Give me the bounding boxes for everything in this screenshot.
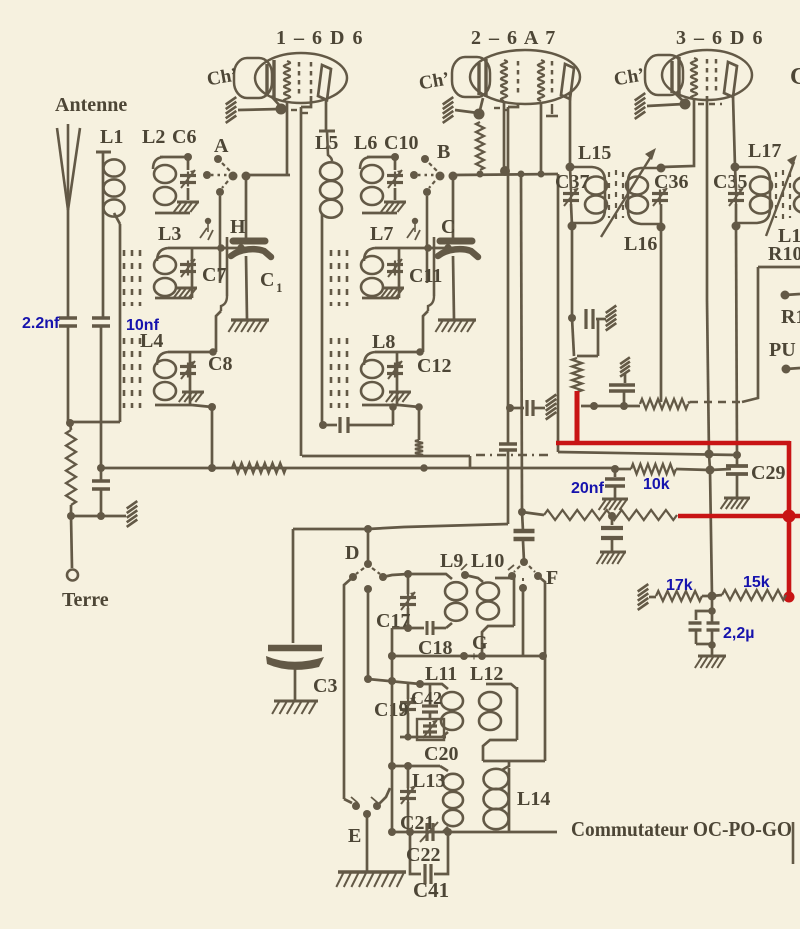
wire x707 long [707, 300, 709, 455]
node 20nf [611, 465, 619, 473]
wire L4 bottom [155, 404, 192, 407]
switch contact left [410, 171, 418, 179]
wire bracket stem [216, 311, 221, 352]
switch stem [207, 224, 209, 232]
chassis hatch V3 [635, 93, 646, 119]
wire below 2.2nf [67, 326, 70, 424]
resistor V2 cathode bias [476, 122, 484, 170]
resistor 15k [722, 590, 786, 600]
ground AVC filter [597, 552, 626, 564]
terminal bar L5 top [319, 130, 335, 133]
svg-text:D: D [345, 542, 359, 564]
switch slash y832 [420, 822, 438, 842]
wire rail y456 [302, 455, 470, 458]
svg-text:1: 1 [276, 280, 283, 295]
wire 2.2u right lower [711, 630, 714, 644]
svg-text:C7: C7 [202, 264, 226, 286]
tube V3 dashes below [698, 103, 722, 105]
node 2.2u bottom [708, 641, 716, 649]
wire 2.2u right [711, 611, 714, 623]
switch F pole [519, 584, 527, 592]
wire L10 right [513, 578, 516, 626]
wire L13 bottom hook [443, 827, 448, 832]
wire D pole down [367, 589, 370, 679]
wire 10k right [676, 469, 710, 470]
wire E right hook [377, 788, 390, 806]
core dashes L3-0 [123, 250, 126, 306]
wire L10 bottom [482, 626, 514, 656]
tube V2 stub bar [546, 115, 558, 118]
svg-text:C35: C35 [713, 171, 747, 193]
node y406 b [590, 402, 598, 410]
node L17 bottom [732, 222, 741, 231]
wire L1 down [102, 152, 105, 317]
svg-text:F: F [546, 567, 558, 589]
node F top [520, 558, 528, 566]
tube V3 6D6 cathode [672, 57, 679, 95]
wire x508 lower [507, 450, 510, 524]
trimmer capacitor C35 [728, 188, 744, 206]
wire L2 top rail [367, 156, 395, 159]
wire L4 top rail [168, 351, 213, 354]
svg-text:C20: C20 [424, 743, 458, 765]
wire rail y468 [100, 467, 615, 470]
resistor B+ feed [640, 399, 688, 409]
wire 2.2u gnd stem [711, 645, 714, 655]
ground L4 [179, 392, 204, 402]
ground L4 [386, 392, 411, 402]
wire V2 plate down [569, 92, 572, 167]
switch contact lower [423, 188, 431, 196]
wire L12 bottom [483, 740, 517, 761]
resistor small x419 [415, 440, 423, 456]
svg-text:L6: L6 [354, 132, 377, 154]
junction V1 cathode [276, 104, 287, 115]
svg-text:C12: C12 [417, 355, 451, 377]
wire G rail [392, 655, 543, 658]
wire L13 hook [440, 766, 448, 771]
switch F contact left [508, 572, 516, 580]
node G rail right [539, 652, 547, 660]
wire 20nf stem2 [614, 486, 617, 498]
wire D right to L9 [383, 574, 408, 577]
svg-text:PU: PU [769, 339, 796, 361]
inductor L17 box [735, 167, 770, 223]
wire 17k to node [702, 595, 712, 598]
svg-text:L13: L13 [412, 770, 445, 792]
core dashes L17 [776, 170, 790, 220]
switch contact top [214, 155, 222, 163]
wire V1 plate down [325, 98, 328, 131]
svg-text:L14: L14 [517, 788, 550, 810]
wire C22 box2 [434, 832, 448, 874]
wire x419 down [418, 407, 421, 440]
wire C22 box [410, 832, 421, 874]
wire C35 chain [735, 167, 736, 190]
switch arrow mark [407, 228, 414, 238]
wire cap stem top [245, 179, 248, 238]
wire L3 bottom [155, 297, 192, 300]
switch dashed arm [222, 163, 230, 171]
wire D stem [367, 529, 370, 563]
ground 20nf [599, 499, 628, 510]
switch F arm [514, 566, 520, 572]
wire L12 top [486, 684, 517, 689]
wire res to x522 [522, 512, 544, 515]
capacitor C22 [425, 864, 431, 884]
capacitor 2.2nf [59, 318, 77, 326]
capacitor C42 [422, 706, 438, 712]
svg-text:Commutateur OC-PO-GO: Commutateur OC-PO-GO [571, 817, 792, 841]
inductor L16 loops [626, 177, 648, 214]
wire L14 top rail [483, 760, 545, 763]
switch E contact left [352, 802, 360, 810]
wire L4 top rail [375, 351, 420, 354]
node G rail left [388, 652, 396, 660]
trimmer capacitor C37 [563, 188, 579, 206]
switch contact dot B1 [412, 218, 418, 224]
wire C37 chain [570, 167, 571, 190]
trimmer capacitor C8 [180, 361, 196, 379]
node L3 top [444, 244, 452, 252]
wire L13 rail [392, 765, 440, 768]
switch E mark1 [351, 797, 358, 803]
wire V3 plate down [733, 96, 735, 167]
svg-text:L16: L16 [624, 233, 657, 255]
wire y515 to hatch [71, 515, 126, 518]
wire L4 right side [189, 352, 192, 405]
wire bracket hook [221, 296, 227, 311]
switch D top [364, 560, 372, 568]
wire B pole bus y174 [453, 174, 558, 175]
wire 20nf stem [614, 469, 617, 477]
tuning arrow IF1 [601, 148, 656, 237]
wire bracket left plate [219, 196, 222, 283]
node D branch [364, 525, 372, 533]
inductor L2 top hook [360, 157, 370, 169]
switch E contact right [373, 802, 381, 810]
wire bracket stem [423, 311, 428, 352]
wire bus x558 down [557, 174, 560, 452]
svg-text:H: H [230, 216, 246, 238]
wire x572 lower [572, 318, 574, 356]
switch mark L10 [461, 564, 467, 570]
wire L3 bottom [362, 297, 399, 300]
wire L2 bottom [155, 212, 190, 215]
wire rail y832 [392, 831, 557, 834]
svg-text:Terre: Terre [62, 589, 109, 611]
wire T stem2 [623, 391, 626, 406]
svg-text:15k: 15k [743, 574, 770, 591]
wire below resistor [70, 505, 73, 516]
inductor L16 box [628, 168, 661, 224]
svg-text:20nf: 20nf [571, 480, 605, 497]
wire y407 b [533, 407, 545, 410]
trimmer capacitor C6 [180, 170, 196, 188]
switch arrow mark2 [208, 230, 213, 240]
wire C37 chain2 [571, 204, 572, 226]
wire L11 bottom hook [442, 732, 448, 737]
junction osc takeoff [518, 171, 525, 178]
ground tuning cap [228, 320, 269, 332]
wire C19 stem2 [407, 713, 410, 737]
ground C3 [272, 701, 318, 714]
inductor L2 [361, 165, 383, 205]
svg-text:L1: L1 [100, 126, 123, 148]
svg-text:L8: L8 [372, 331, 395, 353]
tube V2 dash mark a [494, 107, 500, 109]
wire x598 up [597, 318, 600, 356]
wire L3 right side [398, 248, 401, 298]
ground C6 [174, 202, 199, 212]
inductor L9 loops [445, 582, 467, 621]
wire x661 down [660, 227, 663, 402]
inductor L4 top hook [157, 352, 168, 365]
wire cap stem bottom [453, 256, 454, 319]
switch contact top [421, 155, 429, 163]
wire L10 top [495, 577, 514, 580]
node V2 resistor bottom [477, 171, 484, 178]
right edge stroke [792, 822, 795, 864]
red node 15k [784, 592, 795, 603]
switch dashed arm2 [429, 181, 435, 188]
svg-text:L15: L15 [578, 142, 611, 164]
wire C19 stem [407, 684, 410, 699]
red wire horizontal [556, 441, 790, 446]
core dashes L15L16 [609, 170, 623, 220]
tube V2 stub [551, 104, 553, 114]
resistor 10k [631, 464, 676, 474]
tube V3 6D6 grid [691, 58, 697, 99]
capacitor C curved plate [438, 249, 478, 257]
node x392 y656 [388, 652, 396, 660]
wire y407 a [510, 407, 524, 410]
trimmer capacitor C5 [180, 259, 196, 277]
node rail y832 c [444, 828, 452, 836]
Terre terminal circle [67, 570, 78, 581]
tube V1 6D6 grid [284, 61, 290, 102]
wire V3 grid down to L16 [662, 98, 694, 167]
inductor L10 loops [477, 583, 499, 620]
trimmer capacitor C12 [387, 361, 403, 379]
switch contact left [203, 171, 211, 179]
wire below 10nf [100, 326, 103, 468]
svg-text:C29: C29 [751, 462, 785, 484]
tube V2 6A7 plate [561, 64, 574, 99]
switch arrow mark [200, 228, 207, 238]
capacitor decoup y388 [609, 385, 635, 391]
node x709 y454 [705, 450, 714, 459]
wire L9 bottom rail [392, 627, 424, 630]
node AF junction [708, 592, 717, 601]
switch D pole [364, 585, 372, 593]
svg-text:2,2µ: 2,2µ [723, 625, 754, 642]
wire to 10k [615, 468, 631, 471]
resistor osc dropping [572, 358, 582, 392]
wire rail y456 dashdot [476, 454, 552, 456]
wire L2 right side [394, 157, 397, 170]
wire 15k lead [712, 595, 722, 596]
node L2 top [184, 153, 192, 161]
wire L2 right side lower [394, 188, 397, 200]
wire C36 chain2 [660, 204, 663, 227]
junction V2 cathode [474, 109, 485, 120]
wire box top [758, 266, 800, 269]
node x511 y409 [506, 404, 514, 412]
svg-text:L10: L10 [471, 550, 504, 572]
wire C17 stem [407, 574, 410, 594]
wire T stem [624, 373, 627, 383]
node 10nf bus [97, 464, 105, 472]
capacitor series y832 [427, 823, 433, 841]
inductor L13 loops [443, 774, 463, 826]
node L4 top [416, 348, 424, 356]
inductor L2 [154, 165, 176, 205]
switch D contact left [349, 573, 357, 581]
svg-text:17k: 17k [666, 577, 693, 594]
node x419 [415, 403, 423, 411]
wire F chain2 [523, 541, 524, 561]
inductor L15 loops [585, 177, 607, 214]
wire V1 cathode to hatch [238, 109, 280, 110]
node rail y832 b [406, 828, 414, 836]
node C29 top [733, 451, 741, 459]
wire C21 stem [407, 766, 410, 788]
core dashes L4-1 [131, 338, 134, 408]
svg-text:C42: C42 [411, 688, 442, 708]
trimmer capacitor C10 [387, 170, 403, 188]
wire x709 lower [710, 470, 712, 596]
trimmer capacitor C36 [652, 188, 668, 206]
wire L14 top hook [502, 761, 509, 770]
wire C42 stem [429, 684, 432, 706]
svg-text:L11: L11 [425, 663, 457, 685]
resistor AVC bus [232, 463, 286, 473]
inductor L11 loops [441, 692, 463, 730]
wire 2.2u bottom [696, 643, 712, 646]
wire L3 top rail [375, 247, 454, 250]
node L4 bottom [208, 403, 216, 411]
wire cap stem bottom [246, 256, 247, 319]
inductor L3 [361, 256, 383, 296]
ground E [336, 872, 406, 887]
ground C10 [381, 202, 406, 212]
wire above resistor [70, 423, 71, 430]
node 2.2u top [708, 607, 716, 615]
node rail y832 a [388, 828, 396, 836]
switch E pole [363, 810, 371, 818]
switch E mark2 [371, 797, 378, 803]
tube V2 6A7 cathode [479, 59, 486, 97]
chassis hatch y319 [606, 306, 617, 331]
trimmer capacitor C19 [400, 697, 416, 715]
junction V2 grid2 [538, 171, 545, 178]
node L11 top [416, 680, 424, 688]
wire L4 right side [396, 352, 399, 405]
tube V3 6D6 grid dashes [706, 59, 709, 95]
node antenna bus [66, 419, 74, 427]
switch pole a [436, 172, 445, 181]
wire F chain [522, 512, 523, 531]
svg-text:C22: C22 [406, 844, 440, 866]
wire L2 top rail [160, 156, 188, 159]
capacitor osc series [340, 417, 348, 433]
core dashes L3-2 [139, 250, 142, 306]
node L17 top [731, 163, 740, 172]
svg-text:C36: C36 [654, 171, 688, 193]
switch pole b [449, 172, 458, 181]
inductor L10 hook [465, 575, 483, 582]
wire cap515 stem [611, 516, 614, 525]
wire x212 drop [211, 407, 214, 468]
wire L9 top rail [408, 574, 452, 579]
switch dashed arm [429, 163, 437, 171]
svg-text:2 – 6 A 7: 2 – 6 A 7 [471, 27, 557, 49]
switch contact lower [216, 188, 224, 196]
capacitor 2.2u left [689, 623, 702, 630]
tube V2 6A7 grid dashes [517, 61, 520, 97]
svg-text:C6: C6 [172, 126, 196, 148]
wire V1 cathode bar down [271, 96, 281, 107]
wire V3 screen down long [706, 96, 709, 300]
node L8 rail [389, 403, 397, 411]
tube V1 dash mark2 [302, 112, 308, 114]
core dashes L4-2 [139, 338, 142, 408]
svg-text:C: C [260, 269, 274, 291]
wire to D rail [293, 524, 508, 529]
core dashes L3-0 [330, 250, 333, 306]
wire L11 bottom rail [400, 736, 446, 739]
node D pole C19 rail [364, 675, 372, 683]
wire bracket hook [428, 296, 434, 311]
switch arrow mark2 [415, 230, 420, 240]
wire cap to anchor [596, 318, 606, 321]
inductor L2 top hook [153, 157, 163, 169]
node L4 top [209, 348, 217, 356]
wire V1 grid down to A pole [286, 101, 289, 175]
capacitor H curved plate [231, 249, 271, 257]
tube V1 6D6 cathode [267, 60, 274, 98]
wire x572 down [571, 226, 574, 318]
wire C3 rail [292, 529, 295, 643]
wire 17k lead [649, 596, 656, 599]
capacitor F chain [514, 531, 535, 539]
resistor AVC long [544, 510, 677, 520]
switch dotted line [418, 174, 435, 176]
wire C19 rail [368, 679, 420, 684]
wire V2 cathode to hatch [455, 110, 478, 113]
inductor L4 [154, 360, 176, 400]
switch F pole dash [522, 578, 524, 585]
wire V2 screen bend [508, 104, 518, 107]
wire y402 dashes [690, 401, 742, 403]
red wire AVC branch [678, 514, 800, 519]
switch dashed arm2 [222, 181, 228, 188]
svg-text:3 – 6 D 6: 3 – 6 D 6 [676, 27, 764, 49]
wire C21 stem2 [407, 802, 410, 832]
wire cap stem2 [100, 489, 103, 516]
svg-text:L2: L2 [142, 126, 165, 148]
node bracket L3 rail [217, 244, 225, 252]
tube V1 dash mark [291, 109, 297, 111]
node L13 top [404, 762, 412, 770]
wire L4 bottom ext [192, 405, 212, 407]
ground C29 [721, 498, 750, 509]
wire V2 grid2 down long [540, 102, 543, 174]
tube V2 dash mark b [503, 109, 509, 111]
chassis hatch V2 [443, 97, 454, 123]
wire rail y452 [558, 452, 737, 455]
